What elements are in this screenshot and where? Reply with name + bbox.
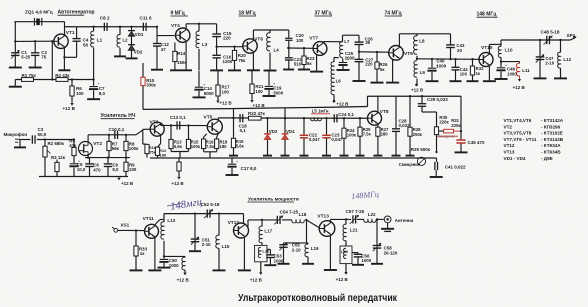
svg-text:10,0: 10,0 [77, 167, 86, 172]
svg-text:VT7: VT7 [309, 35, 318, 41]
svg-text:220к: 220к [451, 123, 461, 128]
svg-text:20: 20 [457, 48, 462, 53]
svg-text:1200: 1200 [223, 59, 233, 64]
svg-text:100к: 100к [191, 144, 201, 149]
svg-text:18 МГц: 18 МГц [239, 10, 257, 16]
svg-text:56: 56 [83, 43, 89, 48]
svg-text:148 МГц: 148 МГц [477, 12, 498, 18]
svg-text:XS1: XS1 [120, 222, 129, 227]
svg-text:100: 100 [255, 89, 263, 94]
svg-text:510: 510 [294, 62, 302, 67]
svg-text:5,6к: 5,6к [174, 144, 183, 149]
svg-text:180: 180 [220, 144, 228, 149]
svg-text:VT11: VT11 [143, 216, 155, 222]
svg-text:+12 В: +12 В [250, 278, 263, 283]
svg-text:VD4: VD4 [286, 129, 295, 134]
svg-text:5к: 5к [307, 61, 312, 66]
svg-text:220к: 220к [439, 119, 449, 124]
svg-text:L2: L2 [123, 38, 129, 43]
svg-text:R1 75к: R1 75к [22, 73, 37, 78]
svg-text:100к: 100к [347, 133, 357, 138]
svg-text:1000: 1000 [274, 258, 284, 263]
svg-text:VT12: VT12 [228, 220, 240, 226]
svg-text:7,5к: 7,5к [363, 132, 372, 137]
svg-text:220: 220 [223, 36, 231, 41]
svg-text:1000: 1000 [169, 263, 179, 268]
svg-text:L21: L21 [350, 228, 358, 233]
svg-text:VT6: VT6 [254, 37, 263, 43]
svg-text:Ультракоротковолновый передатч: Ультракоротковолновый передатчик [238, 293, 398, 304]
svg-text:- КТ3102Е: - КТ3102Е [541, 131, 563, 136]
svg-text:C57 7-25: C57 7-25 [346, 209, 365, 214]
svg-text:C29 0,033: C29 0,033 [427, 97, 448, 102]
svg-text:2-10: 2-10 [202, 242, 211, 247]
svg-text:L20: L20 [341, 249, 349, 254]
svg-text:- КТ934А: - КТ934А [541, 143, 561, 148]
svg-text:220: 220 [365, 61, 373, 66]
svg-text:- Д9Е: - Д9Е [541, 156, 553, 161]
svg-text:+12 В: +12 В [336, 102, 349, 107]
svg-text:74 МГц: 74 МГц [385, 10, 403, 16]
svg-text:Антенна: Антенна [395, 218, 414, 223]
svg-text:50,0: 50,0 [38, 132, 47, 137]
svg-text:ХР1: ХР1 [567, 33, 576, 38]
svg-text:- КТ3142В: - КТ3142В [541, 137, 564, 142]
svg-text:VD2: VD2 [134, 50, 143, 55]
svg-text:R4 43к: R4 43к [55, 73, 70, 78]
svg-text:75к: 75к [149, 150, 155, 155]
svg-text:5000: 5000 [273, 91, 283, 96]
svg-text:L8: L8 [419, 38, 425, 43]
svg-text:+12 В: +12 В [411, 88, 424, 93]
svg-text:L15: L15 [222, 244, 230, 249]
svg-text:+12 В: +12 В [336, 277, 349, 282]
svg-text:C24 0,1: C24 0,1 [338, 112, 354, 117]
svg-text:VT3,VT5,VT8: VT3,VT5,VT8 [504, 131, 532, 136]
svg-text:100: 100 [222, 90, 230, 95]
svg-text:20-120: 20-120 [384, 250, 398, 255]
svg-text:VT2: VT2 [93, 141, 102, 147]
svg-text:330к: 330к [146, 83, 156, 88]
svg-text:VT10: VT10 [481, 45, 493, 51]
svg-text:+12 В: +12 В [121, 181, 134, 186]
svg-text:VT12: VT12 [504, 143, 515, 148]
svg-text:C45 470: C45 470 [468, 140, 486, 145]
svg-text:0,1: 0,1 [240, 128, 247, 133]
svg-text:L13: L13 [167, 218, 175, 223]
svg-text:180: 180 [381, 132, 389, 137]
svg-text:- КТ3142А: - КТ3142А [541, 118, 564, 123]
svg-text:L19: L19 [311, 246, 319, 251]
svg-text:C8 2: C8 2 [100, 16, 110, 21]
svg-text:R14: R14 [177, 51, 186, 56]
svg-text:1к: 1к [140, 251, 145, 256]
svg-text:VT3: VT3 [150, 119, 159, 125]
svg-text:180: 180 [160, 152, 167, 157]
svg-text:ZQ1 4,6 МГц: ZQ1 4,6 МГц [25, 10, 53, 15]
svg-text:VD1 - VD4: VD1 - VD4 [504, 156, 526, 161]
svg-text:L5 1мГн: L5 1мГн [312, 109, 329, 114]
svg-text:L12: L12 [563, 57, 571, 62]
svg-text:VT1: VT1 [66, 30, 75, 36]
svg-text:8,0: 8,0 [99, 91, 106, 96]
svg-text:L6: L6 [336, 78, 342, 83]
svg-text:100: 100 [76, 91, 84, 96]
svg-text:0,047: 0,047 [309, 137, 321, 142]
svg-text:L9: L9 [420, 70, 426, 75]
svg-text:Смещение: Смещение [438, 135, 455, 139]
svg-text:L3: L3 [202, 42, 208, 47]
svg-text:L4: L4 [274, 48, 280, 53]
svg-text:100: 100 [296, 38, 304, 43]
svg-text:250к: 250к [413, 132, 423, 137]
svg-text:VT2: VT2 [504, 124, 513, 129]
svg-text:+12 В: +12 В [253, 103, 266, 108]
svg-text:1000: 1000 [507, 72, 517, 77]
svg-text:7,5к: 7,5к [206, 144, 215, 149]
svg-text:C48 5-18: C48 5-18 [541, 30, 560, 35]
svg-text:VT5: VT5 [204, 115, 213, 121]
svg-text:- КТ934Б: - КТ934Б [541, 150, 561, 155]
svg-text:8,0: 8,0 [112, 167, 119, 172]
svg-text:2000: 2000 [345, 56, 355, 61]
svg-text:9 МГц: 9 МГц [171, 10, 186, 16]
svg-text:VT9: VT9 [404, 51, 413, 57]
svg-text:56к: 56к [112, 146, 120, 151]
svg-text:VT8: VT8 [380, 109, 389, 115]
svg-text:VT7,VT9 - VT11: VT7,VT9 - VT11 [504, 137, 537, 142]
svg-text:R2 680к: R2 680к [48, 141, 65, 146]
svg-text:1000: 1000 [361, 258, 371, 263]
svg-text:0,047: 0,047 [331, 137, 343, 142]
svg-text:100: 100 [460, 71, 468, 76]
svg-text:L17: L17 [264, 228, 272, 233]
svg-text:C17 8,0: C17 8,0 [241, 166, 257, 171]
svg-text:VD3: VD3 [269, 129, 278, 134]
svg-text:Автогенератор: Автогенератор [58, 10, 95, 16]
svg-text:L11: L11 [522, 68, 530, 73]
svg-text:+12 В: +12 В [513, 85, 526, 90]
svg-text:+12 В: +12 В [177, 278, 190, 283]
svg-text:5000: 5000 [204, 91, 214, 96]
svg-text:39: 39 [365, 40, 370, 45]
svg-text:C11 6: C11 6 [140, 16, 152, 21]
svg-text:Усилитель НЧ: Усилитель НЧ [101, 113, 136, 119]
svg-text:1000: 1000 [436, 64, 446, 69]
svg-text:+: + [236, 160, 238, 164]
svg-text:+12 В: +12 В [220, 101, 233, 106]
svg-text:100к: 100к [129, 146, 139, 151]
svg-text:2-10: 2-10 [545, 61, 554, 66]
svg-text:2-10: 2-10 [292, 247, 301, 252]
svg-text:C10 0,1: C10 0,1 [109, 127, 125, 132]
svg-text:75: 75 [41, 55, 46, 60]
svg-text:5,6к: 5,6к [236, 143, 245, 148]
svg-text:L7: L7 [344, 39, 350, 44]
svg-text:VT13: VT13 [504, 150, 515, 155]
svg-text:VT4: VT4 [171, 23, 180, 29]
svg-text:Усилитель мощности: Усилитель мощности [248, 196, 299, 202]
svg-text:R22 47к: R22 47к [248, 111, 266, 116]
svg-text:75к: 75к [238, 58, 246, 63]
svg-text:L18: L18 [299, 212, 307, 217]
svg-text:100: 100 [129, 167, 137, 172]
svg-text:47: 47 [161, 47, 166, 52]
svg-text:C54 7-25: C54 7-25 [280, 210, 299, 215]
svg-text:L1: L1 [97, 38, 103, 43]
svg-text:+12 В: +12 В [63, 106, 76, 111]
svg-text:C52 5-18: C52 5-18 [201, 202, 220, 207]
svg-text:L22: L22 [368, 212, 376, 217]
svg-text:- КП3296: - КП3296 [541, 124, 561, 129]
svg-text:+12 В: +12 В [172, 181, 185, 186]
svg-text:VD1: VD1 [135, 32, 144, 37]
svg-text:470: 470 [93, 167, 101, 172]
svg-text:R29 500к: R29 500к [411, 147, 431, 152]
svg-text:C41 0,022: C41 0,022 [445, 165, 466, 170]
svg-text:VT1,VT4,VT6: VT1,VT4,VT6 [504, 118, 532, 123]
svg-text:5-25: 5-25 [21, 55, 30, 60]
svg-text:C13 0,1: C13 0,1 [170, 115, 186, 120]
svg-text:R3 12к: R3 12к [51, 155, 66, 160]
svg-text:L10: L10 [505, 48, 513, 53]
svg-text:VT13: VT13 [317, 214, 329, 220]
svg-text:37 МГц: 37 МГц [315, 10, 333, 16]
svg-text:Микрофон: Микрофон [4, 131, 28, 137]
